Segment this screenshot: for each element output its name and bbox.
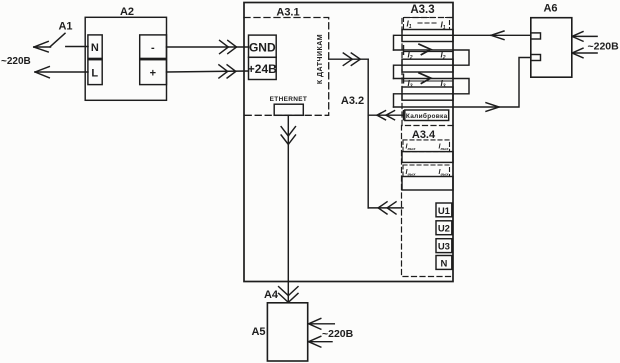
terminal tick kalibrovka [403,111,405,120]
terminal row I1 dashed box [404,18,450,30]
svg-text:A5: A5 [251,326,265,338]
svg-text:ETHERNET: ETHERNET [270,96,307,103]
wire A5 mains 1 [308,323,334,325]
wire row2 [394,50,470,79]
block A2 [85,17,166,100]
svg-text:~220В: ~220В [588,41,620,53]
wire bus to A3.4 [368,207,403,209]
block A5 [267,303,307,361]
bus A3.2 vertical [367,59,369,208]
arrow << kalibrovka [377,111,395,120]
svg-text:А3.4: А3.4 [412,129,436,141]
terminal tick row3 [403,74,405,83]
terminal L [88,60,102,85]
terminal GND [249,35,277,57]
svg-text:А6: А6 [543,3,557,15]
terminal row dashed box A3.4 row2 [403,165,450,177]
terminal N [88,35,102,59]
svg-text:А1: А1 [58,21,72,33]
module A3.1 dashed box [244,18,329,116]
A6 tab 2 [531,55,541,61]
body row1 A3.4 [402,152,453,163]
wire kalibrovka to bus [368,114,403,116]
svg-text:U1: U1 [438,206,451,217]
svg-text:-: - [151,42,155,54]
svg-text:N: N [440,258,447,269]
arrow >> K DATCHIKAM [343,53,360,65]
arrow to mains N [34,41,48,52]
wire A5 mains 2 [308,341,332,343]
arrow >> to GND [220,40,237,53]
svg-text:А2: А2 [120,6,134,18]
arrow < into A6 top [572,32,583,42]
arrow double down ethernet [281,127,295,145]
terminal U2 [436,221,452,235]
wire [34,46,51,48]
arrow >> to +24V [219,65,236,78]
arrow < into A5 bottom [309,336,321,347]
arrow < on wire from A6 [491,31,504,40]
block A3 outer box [244,3,453,282]
wire row2 lower edge [404,51,454,53]
wire A6 mains 1 [572,35,597,37]
wire plus to +24V [167,71,249,72]
wire minus to GND [167,46,249,48]
terminal minus [140,35,167,59]
switch A1 [50,33,88,47]
arrow > on return wire [486,103,499,112]
wire L [35,71,88,73]
svg-text:+: + [150,68,156,80]
Kalibrovka box [405,110,449,121]
body row2 A3.4 [402,177,453,191]
wire return to A6 [394,58,531,108]
terminal row dashed box A3.4 row1 [403,140,450,152]
arrow chevron row2 [419,44,431,54]
svg-text:К ДАТЧИКАМ: К ДАТЧИКАМ [317,34,324,84]
svg-text:~220В: ~220В [1,56,31,67]
module A3.3 dashed border [402,18,453,126]
svg-text:+24В: +24В [248,62,277,76]
svg-text:U2: U2 [438,224,450,235]
wire row3 [394,79,470,108]
arrow double down A4 [279,287,298,303]
arrow < into A5 top [309,318,321,329]
arrow << to bus from A3.4 [378,202,396,214]
svg-text:L: L [91,68,98,80]
terminal U3 [436,239,452,253]
wire from A6 through CT1 [394,35,531,50]
svg-text:A4: A4 [264,289,279,301]
wire K DATCHIKAM [329,58,369,60]
svg-text:N: N [91,42,99,54]
CT body 2 [402,59,453,72]
CT body 1 [402,30,453,42]
svg-text:~220В: ~220В [322,328,354,340]
arrow chevron row3 [419,73,431,83]
terminal U1 [436,203,452,217]
svg-text:GND: GND [249,40,276,54]
wire row3 lower edge [404,80,454,82]
terminal +24V [249,57,277,79]
ETHERNET port [274,104,303,115]
wire A6 mains 2 [572,52,597,54]
svg-text:А3.2: А3.2 [341,95,364,107]
terminal tick row2 [403,46,405,55]
arrow < into A6 bottom [572,48,583,58]
svg-text:А3.1: А3.1 [276,7,299,19]
arrow to mains L [35,67,49,78]
terminal plus [140,60,167,85]
module A3.4 dashed box [402,126,454,277]
wire ethernet down to A5 [287,115,289,302]
svg-text:U3: U3 [438,242,450,253]
CT body 3 [402,87,453,100]
terminal N [436,256,452,270]
svg-text:Калибровка: Калибровка [406,112,448,120]
block A6 [531,18,572,77]
svg-text:А3.3: А3.3 [410,4,434,16]
A6 tab 1 [531,33,541,39]
